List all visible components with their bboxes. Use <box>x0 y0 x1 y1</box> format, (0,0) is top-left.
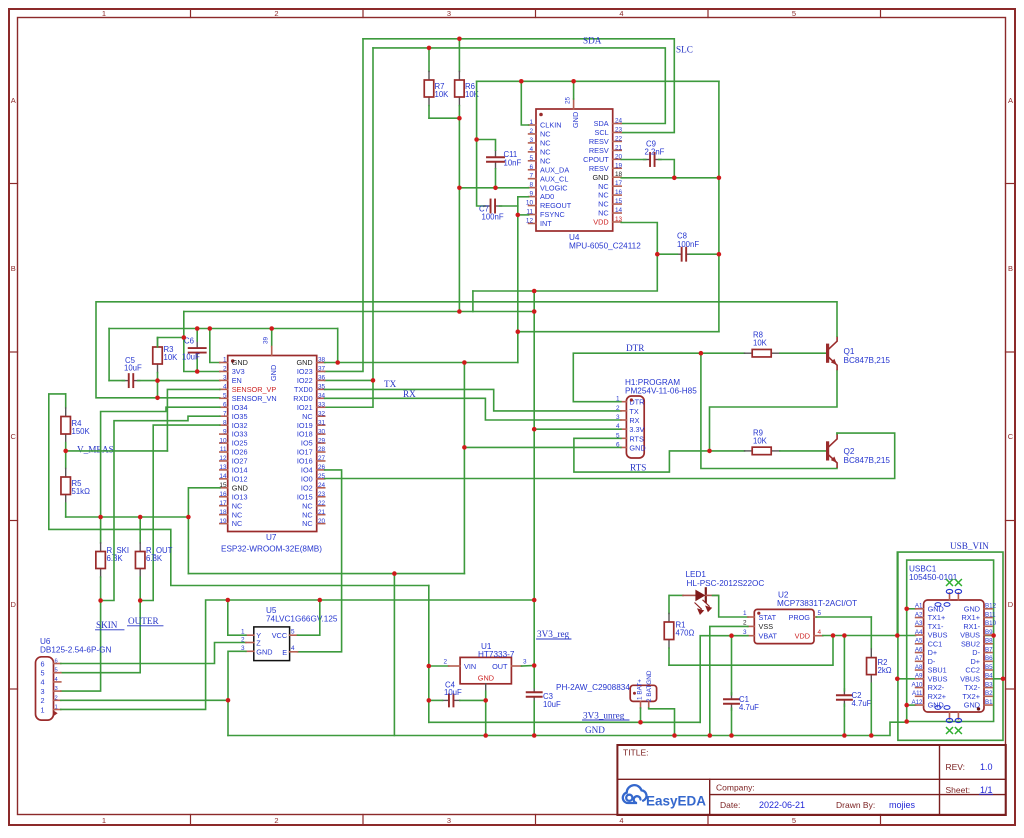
wire SLC net top <box>373 48 665 124</box>
pin 2 BATGND <box>648 701 650 708</box>
svg-text:5: 5 <box>223 393 227 400</box>
pin B7 USBC1 D- <box>984 652 992 654</box>
svg-text:16: 16 <box>219 491 227 498</box>
wire VIN <box>429 665 449 667</box>
svg-text:74LVC1G66GV.125: 74LVC1G66GV.125 <box>266 615 338 624</box>
svg-text:7: 7 <box>529 173 533 180</box>
wire C7 right to AD0 riser <box>500 205 518 207</box>
capacitor C9 <box>644 159 651 161</box>
junction C4 left <box>427 698 432 703</box>
junction GND leg pin18 <box>717 176 722 181</box>
pin A7 USBC1 D- <box>916 660 924 662</box>
svg-text:A10: A10 <box>911 681 923 688</box>
pin 24 U4 SDA <box>613 123 622 125</box>
svg-text:6: 6 <box>55 659 58 665</box>
svg-text:470Ω: 470Ω <box>676 629 695 638</box>
resistor R5 <box>65 451 67 469</box>
wire EN to Q1 collector <box>96 302 837 398</box>
pin 28 U7 IO17 <box>317 451 325 453</box>
svg-text:21: 21 <box>615 144 623 151</box>
junction VLOGIC pullup rail <box>457 186 462 191</box>
capacitor C11 <box>495 151 497 158</box>
pin B5 USBC1 CC2 <box>984 669 992 671</box>
ic U4 MPU-6050 body <box>536 109 613 231</box>
pin 1 U4 CLKIN <box>529 124 536 126</box>
wire GND inner loop <box>907 560 994 721</box>
svg-text:C: C <box>10 432 16 441</box>
shield pin ovals inside bottom <box>935 706 941 710</box>
wire ESP32 pin39 top <box>271 329 273 347</box>
wire U5 VCC riser <box>298 600 320 635</box>
pin 23 U4 SCL <box>613 131 622 133</box>
svg-text:B5: B5 <box>985 664 993 671</box>
pin 20 U7 NC <box>317 523 325 525</box>
pin 5 U4 NC <box>529 160 536 162</box>
svg-text:A2: A2 <box>915 611 923 618</box>
wire PROG to R2 <box>817 616 872 618</box>
wire battery sense top <box>49 394 429 586</box>
svg-text:14: 14 <box>219 473 227 480</box>
junction C11 VLOGIC <box>493 186 498 191</box>
svg-text:2: 2 <box>616 405 620 412</box>
svg-text:DTR: DTR <box>626 343 645 353</box>
svg-text:IO13: IO13 <box>232 492 248 501</box>
pin 12 U4 INT <box>529 222 536 224</box>
resistor R6 <box>458 39 460 72</box>
pin 26 U7 IO4 <box>317 469 325 471</box>
svg-text:Q2: Q2 <box>844 447 855 456</box>
wire BAT+ down <box>640 708 642 722</box>
svg-text:22: 22 <box>318 500 326 507</box>
junction GND A1 <box>904 607 909 612</box>
junction C4 right <box>483 698 488 703</box>
svg-text:A7: A7 <box>915 655 923 662</box>
wire RXD0 RX <box>325 398 621 420</box>
pin A3 USBC1 TX1- <box>916 625 924 627</box>
wire GND row under R5 <box>66 516 189 518</box>
wire pullup rail down to 3V3 <box>458 118 460 311</box>
svg-text:STAT: STAT <box>759 613 777 622</box>
pin B12 USBC1 GND <box>984 608 992 610</box>
wire battery plus riser <box>428 586 430 723</box>
pin 1 BAT+ <box>640 701 642 708</box>
svg-text:B: B <box>1008 264 1013 273</box>
junction 3V3 end <box>532 309 537 314</box>
svg-text:B: B <box>11 264 16 273</box>
svg-text:30: 30 <box>318 428 326 435</box>
wire V_MEAS <box>66 450 168 452</box>
wire GND to H1 <box>464 446 621 448</box>
svg-text:NC: NC <box>302 412 313 421</box>
pin 10 U7 IO25 <box>220 442 228 444</box>
svg-text:IO27: IO27 <box>232 457 248 466</box>
svg-text:2kΩ: 2kΩ <box>878 666 892 675</box>
shield pin ovals inside top <box>935 603 941 607</box>
junction U6 pin2 <box>226 698 231 703</box>
svg-text:1: 1 <box>102 9 106 18</box>
junction C9 on GND <box>672 176 677 181</box>
wire SDA to ESP32 IO23 <box>325 39 363 372</box>
pin 16 U7 IO13 <box>220 496 228 498</box>
svg-text:IO22: IO22 <box>297 376 313 385</box>
junction pullup rail on 3V3 <box>457 309 462 314</box>
resistor R2 <box>870 617 872 649</box>
svg-text:105450-0101: 105450-0101 <box>909 573 958 582</box>
junction GND loop bottom <box>904 719 909 724</box>
svg-text:IO15: IO15 <box>297 492 313 501</box>
svg-text:TX: TX <box>629 407 638 416</box>
wire IO34 <box>101 407 220 517</box>
resistor R4 <box>65 394 67 408</box>
pin 12 U7 IO27 <box>220 460 228 462</box>
pin A10 USBC1 RX2- <box>916 687 924 689</box>
pin 4 U4 NC <box>529 151 536 153</box>
svg-text:10K: 10K <box>753 437 768 446</box>
pin 21 U4 RESV <box>613 149 622 151</box>
svg-text:4: 4 <box>619 9 623 18</box>
svg-text:VCC: VCC <box>272 631 287 640</box>
pin A4 USBC1 VBUS <box>916 634 924 636</box>
svg-text:8: 8 <box>529 182 533 189</box>
svg-text:IO5: IO5 <box>301 439 313 448</box>
junction gnd rail VSS <box>708 733 713 738</box>
pin 6 U7 IO34 <box>220 406 228 408</box>
svg-text:5: 5 <box>55 668 58 674</box>
connector U6 DB125 body <box>36 657 54 720</box>
svg-text:IO2: IO2 <box>301 483 313 492</box>
pin 20 U4 CPOUT <box>613 158 622 160</box>
svg-text:IO32: IO32 <box>232 421 248 430</box>
svg-text:NC: NC <box>302 510 313 519</box>
pin 1 U6 <box>54 709 61 711</box>
svg-text:150K: 150K <box>72 427 91 436</box>
svg-text:OUT: OUT <box>492 662 508 671</box>
wire pin25 GND up <box>573 81 575 99</box>
svg-text:IO25: IO25 <box>232 439 248 448</box>
svg-text:LED1: LED1 <box>686 570 707 579</box>
resistor R9 <box>745 450 753 452</box>
svg-text:17: 17 <box>219 500 227 507</box>
svg-text:RESV: RESV <box>589 164 609 173</box>
svg-text:B12: B12 <box>985 603 997 610</box>
wire gnd down to rail <box>187 517 189 574</box>
svg-text:3: 3 <box>55 686 58 692</box>
svg-text:14: 14 <box>615 207 623 214</box>
title block <box>617 745 1005 815</box>
pin B10 USBC1 RX1- <box>984 625 992 627</box>
wire SENSOR_VN <box>158 397 220 399</box>
resistor R_SKI <box>100 517 102 543</box>
svg-text:A11: A11 <box>912 690 923 697</box>
capacitor C5 <box>122 380 129 382</box>
wire C3 top <box>533 666 535 688</box>
svg-text:GND: GND <box>232 483 248 492</box>
wire U6 pin2 gnd <box>61 699 228 701</box>
svg-text:RESV: RESV <box>589 137 609 146</box>
junction CLKIN <box>519 79 524 84</box>
svg-text:TX1+: TX1+ <box>928 613 946 622</box>
pin1 marker H1 <box>630 398 633 401</box>
wire R3 top <box>158 338 184 348</box>
svg-text:3: 3 <box>616 414 620 421</box>
svg-text:2022-06-21: 2022-06-21 <box>759 800 805 810</box>
svg-text:IO34: IO34 <box>232 403 248 412</box>
svg-text:NC: NC <box>598 209 609 218</box>
svg-text:32: 32 <box>318 410 326 417</box>
wire FSYNC <box>518 214 529 216</box>
svg-text:2: 2 <box>529 128 533 135</box>
svg-text:1 BAT+: 1 BAT+ <box>637 679 644 700</box>
USBC1 shield pins bottom <box>949 712 951 719</box>
junction B4 <box>1001 677 1006 682</box>
svg-text:CPOUT: CPOUT <box>583 155 609 164</box>
svg-text:MCP73831T-2ACI/OT: MCP73831T-2ACI/OT <box>777 599 857 608</box>
junction gnd rail C4 <box>483 733 488 738</box>
svg-text:IO33: IO33 <box>232 430 248 439</box>
wire C8 right <box>690 253 719 255</box>
wire U4 GND pin18 <box>621 177 719 179</box>
svg-text:MPU-6050_C24112: MPU-6050_C24112 <box>569 242 641 251</box>
pin 2 U6 <box>54 699 61 701</box>
svg-text:VSS: VSS <box>759 622 774 631</box>
ic USBC1 body <box>924 600 984 712</box>
wire C9 right down <box>659 160 675 178</box>
svg-text:B1: B1 <box>985 699 993 706</box>
pin 23 U7 IO15 <box>317 496 325 498</box>
svg-text:RTS: RTS <box>630 463 646 473</box>
wire VLOGIC <box>459 187 528 189</box>
wire AD0 <box>518 196 529 198</box>
junction pin38 gnd down <box>462 360 467 365</box>
svg-text:VIN: VIN <box>464 662 476 671</box>
junction EN node <box>155 378 160 383</box>
svg-text:7: 7 <box>223 410 227 417</box>
pin 38 U7 GND <box>317 362 325 364</box>
svg-text:SENSOR_VP: SENSOR_VP <box>232 385 277 394</box>
svg-text:D+: D+ <box>928 648 938 657</box>
svg-text:6: 6 <box>223 401 227 408</box>
svg-text:IO19: IO19 <box>297 421 313 430</box>
svg-text:1: 1 <box>223 357 227 364</box>
junction VCC riser <box>318 598 323 603</box>
svg-text:PROG: PROG <box>789 613 811 622</box>
svg-text:13: 13 <box>219 464 227 471</box>
svg-text:10uF: 10uF <box>444 688 462 697</box>
svg-text:GND: GND <box>964 604 980 613</box>
wire U6 pin1 <box>61 600 534 709</box>
junction H1 GND tap <box>462 445 467 450</box>
wire A9 VBUS <box>897 678 915 680</box>
wire U4 VDD <box>473 223 657 292</box>
svg-text:9: 9 <box>529 191 533 198</box>
svg-text:NC: NC <box>598 191 609 200</box>
svg-text:10: 10 <box>526 200 534 207</box>
svg-text:SCL: SCL <box>594 128 608 137</box>
junction SKIN <box>98 598 103 603</box>
svg-text:B11: B11 <box>985 611 996 618</box>
svg-text:VLOGIC: VLOGIC <box>540 183 568 192</box>
wire AD0/FSYNC riser <box>517 197 519 363</box>
pin 30 U7 IO18 <box>317 433 325 435</box>
svg-text:3: 3 <box>523 659 527 666</box>
svg-text:4: 4 <box>223 384 227 391</box>
no-connect X marks top <box>946 579 953 586</box>
wire gnd to pin15 <box>188 488 219 517</box>
pin 9 U4 AD0 <box>529 196 536 198</box>
wire IO4 to U5 E <box>298 470 342 652</box>
junction IO22 tap <box>371 378 376 383</box>
pin 18 U7 NC <box>220 514 228 516</box>
svg-text:B2: B2 <box>985 690 993 697</box>
svg-text:2: 2 <box>274 816 278 825</box>
wire C11/C7 left leg <box>477 81 485 206</box>
capacitor C2 <box>843 689 845 696</box>
svg-text:18: 18 <box>219 509 227 516</box>
svg-text:3: 3 <box>41 687 45 696</box>
svg-text:A3: A3 <box>915 620 923 627</box>
svg-text:VDD: VDD <box>795 632 810 641</box>
svg-text:20: 20 <box>318 518 326 525</box>
pin 27 U7 IO16 <box>317 460 325 462</box>
pin A6 USBC1 D+ <box>916 652 924 654</box>
wire B9 VBUS <box>984 635 994 637</box>
pin A11 USBC1 RX2+ <box>916 695 924 697</box>
pin 2 U4 NC <box>529 133 536 135</box>
svg-text:IO0: IO0 <box>301 474 313 483</box>
junction R1 VDD <box>831 633 836 638</box>
wire C6 bottom <box>196 360 198 372</box>
connector PH-2AW battery body <box>630 685 656 701</box>
svg-text:4: 4 <box>818 629 822 636</box>
svg-text:C: C <box>1008 432 1014 441</box>
junction 3V3 at Y wire <box>532 598 537 603</box>
no-connect X marks bottom <box>946 727 953 734</box>
ic U2 MCP73831 body <box>754 609 814 643</box>
wire U5 GND down <box>228 651 246 735</box>
wire SENSOR_VP riser <box>167 389 219 451</box>
pin1 marker battery <box>633 692 636 695</box>
wire RTS loop <box>574 438 745 472</box>
resistor R_OUT <box>139 517 141 543</box>
wire C5 left riser <box>108 329 110 381</box>
junction pin25 <box>571 79 576 84</box>
junction R6 top on SDA wire <box>457 37 462 42</box>
svg-text:1/1: 1/1 <box>980 785 993 795</box>
wire 3V3_unreg rail <box>429 721 700 723</box>
svg-text:A: A <box>1008 96 1013 105</box>
capacitor C6 <box>196 342 198 349</box>
junction DTR <box>699 351 704 356</box>
junction USB_VIN A4 <box>895 633 900 638</box>
svg-text:IO35: IO35 <box>232 412 248 421</box>
pin B4 USBC1 VBUS <box>984 678 992 680</box>
svg-text:10K: 10K <box>465 90 480 99</box>
pin A1 USBC1 GND <box>916 608 924 610</box>
pin 1 U7 GND <box>220 362 228 364</box>
wire U5 Y riser <box>228 600 246 635</box>
wire C4 left <box>429 699 443 701</box>
svg-text:SENSOR_VN: SENSOR_VN <box>232 394 277 403</box>
svg-text:EasyEDA: EasyEDA <box>646 794 706 809</box>
pin A9 USBC1 VBUS <box>916 678 924 680</box>
pin 21 U7 NC <box>317 514 325 516</box>
svg-text:OUTER: OUTER <box>128 616 159 626</box>
junction C6 top GND <box>195 326 200 331</box>
svg-text:4.7uF: 4.7uF <box>739 703 759 712</box>
junction USB_VIN A9 <box>895 677 900 682</box>
pin 15 U7 GND <box>220 487 228 489</box>
svg-text:19: 19 <box>219 518 227 525</box>
pin 4 U6 <box>54 681 61 683</box>
pin B2 USBC1 TX2+ <box>984 695 992 697</box>
pin 8 U7 IO32 <box>220 424 228 426</box>
wire LED cathode to STAT <box>713 595 748 617</box>
pin 4 U2 VDD <box>814 635 823 637</box>
svg-text:2: 2 <box>743 620 747 627</box>
wire GND upper rail <box>109 328 338 330</box>
resistor R7 <box>428 48 430 72</box>
svg-text:10: 10 <box>219 437 227 444</box>
pin A5 USBC1 CC1 <box>916 643 924 645</box>
wire A1 gnd <box>907 608 916 610</box>
pin 4 H1 3.3V <box>621 428 627 430</box>
svg-text:4: 4 <box>41 678 45 687</box>
svg-text:4: 4 <box>291 645 295 652</box>
svg-text:GND: GND <box>296 358 312 367</box>
svg-text:2.2nF: 2.2nF <box>645 148 665 157</box>
capacitor C7 <box>484 205 491 207</box>
wire C11 bottom to VLOGIC <box>495 169 497 188</box>
svg-text:SBU2: SBU2 <box>961 639 980 648</box>
svg-text:10K: 10K <box>435 90 450 99</box>
svg-text:23: 23 <box>318 491 326 498</box>
svg-text:1: 1 <box>102 816 106 825</box>
svg-text:SBU1: SBU1 <box>928 666 947 675</box>
wire C8 left <box>657 253 677 255</box>
wire gnd rail mid <box>188 573 464 575</box>
capacitor C1 <box>731 693 733 700</box>
svg-text:RX: RX <box>403 389 416 399</box>
svg-text:4: 4 <box>529 146 533 153</box>
svg-text:NC: NC <box>232 510 243 519</box>
wire GND top rail <box>477 80 719 82</box>
svg-text:DB125-2.54-6P-GN: DB125-2.54-6P-GN <box>40 646 112 655</box>
wire C2 bottom leg <box>843 704 845 735</box>
svg-text:BC847B,215: BC847B,215 <box>844 356 891 365</box>
svg-text:CC1: CC1 <box>928 639 943 648</box>
pin 1 U2 STAT <box>748 616 754 618</box>
junction V_MEAS <box>63 449 68 454</box>
wire Q2 collector up <box>836 432 838 435</box>
wire C5 left <box>109 380 124 382</box>
svg-text:2: 2 <box>41 696 45 705</box>
svg-text:RESV: RESV <box>589 146 609 155</box>
svg-text:9: 9 <box>223 428 227 435</box>
svg-text:D-: D- <box>972 648 980 657</box>
svg-text:D: D <box>10 600 16 609</box>
svg-text:5: 5 <box>818 610 822 617</box>
junction pin1 riser <box>208 326 213 331</box>
svg-text:AUX_DA: AUX_DA <box>540 165 569 174</box>
wire OUTER to U6 pin5 <box>61 601 140 673</box>
svg-text:RX2+: RX2+ <box>928 692 946 701</box>
wire C6 top <box>196 329 198 342</box>
junction GND mid rail <box>516 329 521 334</box>
junction C6 bottom 3V3 <box>195 369 200 374</box>
pin 1 H1 DTR <box>621 401 627 403</box>
svg-text:28: 28 <box>318 446 326 453</box>
pin 36 U7 IO22 <box>317 379 325 381</box>
